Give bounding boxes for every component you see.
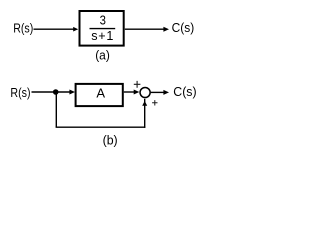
arrowhead into summer <box>134 90 140 95</box>
block 3/(s+1) <box>80 11 124 46</box>
arrowhead output (a) <box>163 27 169 32</box>
plus sign lower <box>152 100 157 105</box>
wire feedforward up <box>144 99 146 128</box>
arrowhead input (a) <box>73 27 78 32</box>
svg-text:A: A <box>96 86 105 101</box>
wire output (a) <box>125 28 166 30</box>
wire feedforward bottom <box>56 126 146 128</box>
arrowhead into summer bottom <box>142 101 147 106</box>
wire block A to summer <box>124 91 136 93</box>
svg-text:3: 3 <box>100 13 107 28</box>
block A <box>76 84 123 106</box>
wire summer to C(s) <box>151 91 166 93</box>
svg-text:R(s): R(s) <box>13 20 33 35</box>
summing junction <box>140 87 150 97</box>
svg-text:R(s): R(s) <box>10 85 30 100</box>
fraction bar <box>90 28 116 30</box>
plus sign upper <box>134 81 141 88</box>
svg-text:C(s): C(s) <box>173 85 196 99</box>
wire feedforward down <box>55 92 57 127</box>
svg-text:s+1: s+1 <box>91 29 114 43</box>
junction dot node <box>53 89 59 95</box>
svg-text:C(s): C(s) <box>172 21 195 36</box>
svg-text:(a): (a) <box>95 48 110 63</box>
arrowhead to C(s) (b) <box>163 90 169 95</box>
wire input (b) <box>32 91 72 93</box>
svg-text:(b): (b) <box>103 133 118 147</box>
wire input (a) <box>34 28 75 30</box>
arrowhead into block A <box>69 90 75 95</box>
